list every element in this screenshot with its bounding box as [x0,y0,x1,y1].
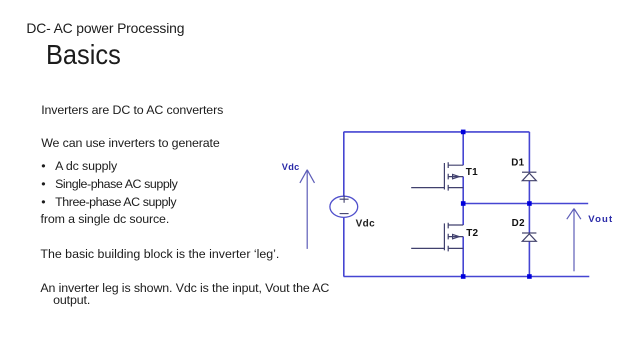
voltage source plus sign [340,195,349,213]
junction dots [461,130,532,279]
transistor T2 (MOSFET) [411,223,463,252]
wire: mid rail (output) [463,203,588,205]
node: output junction at diodes [527,201,532,206]
Vdc input arrow [300,170,315,249]
svg-text:Vdc: Vdc [282,162,300,172]
node: bottom rail / T2 source [461,274,466,279]
svg-text:Vout: Vout [588,214,613,225]
wire: T1 source vertical [462,177,464,204]
node: bottom rail / D2 anode [527,274,532,279]
svg-text:D1: D1 [511,157,524,168]
wire: top rail [344,131,530,133]
wire: T2 source vertical [462,237,464,277]
wire: left vertical (source to bottom rail) [343,217,345,276]
body text lines [41,104,223,116]
Vout arrow [567,209,581,272]
transistor T1 (MOSFET) [411,162,463,190]
wire: D1 bottom lead [528,181,530,204]
wire: D2 bottom lead [528,241,530,276]
slide heading Basics [46,41,121,69]
node: top rail / T1 drain [461,130,466,135]
svg-text:Vdc: Vdc [356,219,375,230]
wire: bottom rail [344,276,590,278]
wire: T1 drain [462,132,464,165]
wire: D2 top lead [528,204,530,234]
svg-text:T1: T1 [466,167,478,178]
wire: T2 drain [462,204,464,226]
node: output junction at transistors [461,201,466,206]
wire: left vertical (top half, rail to source) [343,132,345,196]
svg-text:T2: T2 [466,228,478,239]
voltage source minus sign [340,213,349,215]
slide title small [26,22,184,36]
diode D2 [522,233,536,241]
voltage source V1 circle [330,196,358,217]
wire: D1 top lead [528,132,530,172]
svg-text:D2: D2 [512,218,525,229]
diode D1 [522,172,536,181]
